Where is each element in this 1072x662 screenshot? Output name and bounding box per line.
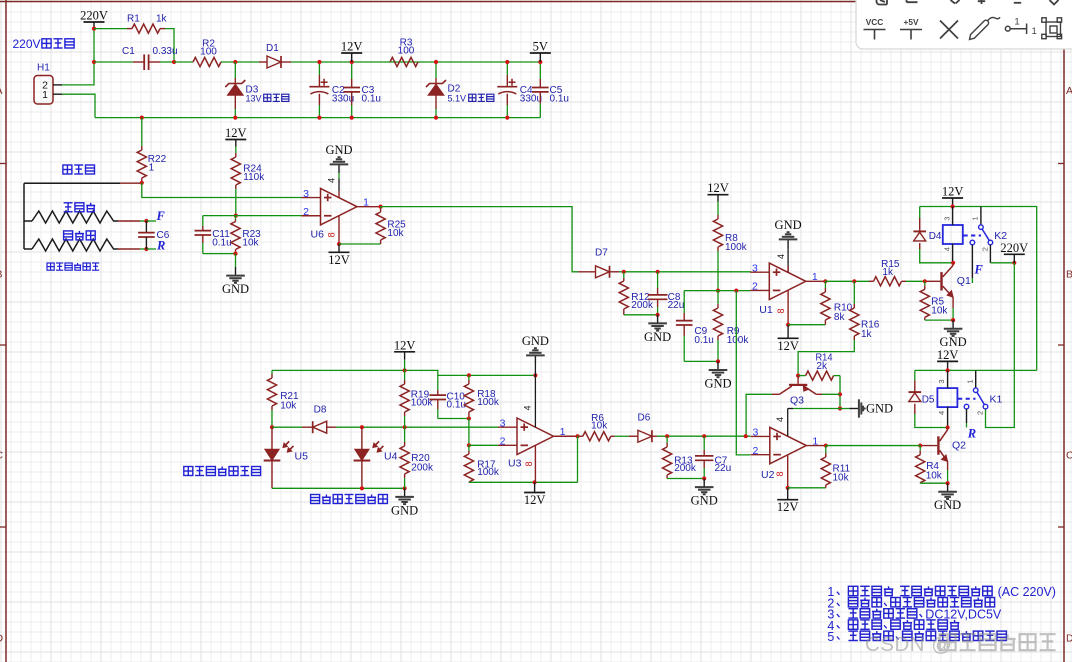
ground U6 pin4: [338, 164, 340, 173]
node Q3 base/R14: [796, 374, 800, 378]
node C3 top: [350, 60, 354, 64]
node junction 220V/R1: [92, 27, 96, 31]
resistor R23: [235, 216, 237, 220]
relay K1 switch: [975, 370, 977, 388]
svg-text:10k: 10k: [833, 472, 850, 483]
wire U1pin2 down to U2 pin2: [736, 291, 750, 455]
node U3 output: [575, 434, 579, 438]
resistor R13: [666, 436, 668, 443]
capacitor C11: [202, 216, 204, 226]
svg-text:10k: 10k: [591, 421, 608, 432]
svg-text:F: F: [156, 209, 166, 223]
ground R9: [717, 361, 719, 370]
node 12V rail: [403, 368, 407, 372]
toolbar icon no-connect X: [940, 21, 958, 39]
wire K1 top rail: [915, 369, 1037, 371]
wire H1 pin2 to 220V column: [62, 84, 95, 86]
wire R13 bottom: [667, 478, 704, 480]
toolbar icon group: [1042, 18, 1062, 39]
capacitor C10: [437, 375, 439, 390]
motor left bus black: [24, 183, 32, 249]
wire C11 bottom to R23: [203, 253, 236, 255]
wire pin8 to R25: [339, 243, 381, 245]
H1 pin 1 stub: [53, 93, 62, 95]
svg-text:100k: 100k: [725, 242, 748, 253]
resistor R1: [132, 24, 160, 33]
ground Q1: [952, 320, 954, 329]
svg-text:12V: 12V: [394, 338, 416, 352]
U6 pin4 wire to GND: [338, 173, 340, 179]
capacitor C3: [351, 62, 353, 79]
svg-text:2: 2: [981, 247, 990, 251]
resistor R22 body: [137, 150, 146, 178]
diode D1: [259, 61, 267, 63]
node D2 top: [434, 60, 438, 64]
resistor R5: [924, 281, 926, 285]
node U2 pin8: [786, 486, 790, 490]
wire C1 left: [94, 61, 133, 63]
svg-text:D: D: [1066, 633, 1072, 645]
svg-text:10k: 10k: [926, 470, 943, 481]
svg-text:GND: GND: [522, 334, 549, 348]
photodiode U5: [271, 427, 273, 449]
resistor R14 body: [806, 371, 834, 380]
svg-text:10k: 10k: [280, 400, 297, 411]
svg-text:4: 4: [523, 405, 533, 410]
resistor R25: [380, 207, 382, 208]
wire U6 out long: [381, 207, 578, 272]
node R18/C10 bottom: [467, 416, 471, 420]
node pin2/U2 branch: [734, 289, 738, 293]
svg-text:100k: 100k: [477, 467, 500, 478]
svg-text:D5: D5: [922, 395, 935, 406]
svg-text:0.1u: 0.1u: [694, 335, 713, 346]
svg-text:5V: 5V: [533, 40, 548, 54]
svg-text:U2: U2: [761, 469, 775, 481]
resistor R10: [824, 281, 826, 288]
capacitor C2 plates: [309, 86, 329, 88]
svg-text:R: R: [967, 427, 976, 441]
wire R14 right down: [839, 376, 841, 409]
node C3 bottom: [350, 116, 354, 120]
toolbar panel: [856, 0, 1072, 49]
node C10 row R18: [467, 373, 471, 377]
watermark CSDN: [865, 633, 1056, 656]
svg-text:8: 8: [775, 471, 785, 476]
node Q2 base: [918, 443, 922, 447]
node Q3 emitter wire: [744, 434, 748, 438]
svg-text:D7: D7: [595, 248, 608, 259]
flag 5V: [530, 52, 551, 54]
photo bottom rail: [272, 487, 405, 489]
svg-text:Q1: Q1: [957, 275, 971, 287]
resistor R4: [919, 446, 921, 451]
diode D4 symbol: [913, 230, 926, 232]
svg-text:2: 2: [976, 411, 985, 415]
node D3 top: [233, 60, 237, 64]
node C2 top: [317, 60, 321, 64]
svg-text:200k: 200k: [411, 462, 434, 473]
svg-text:A: A: [1066, 85, 1072, 97]
node pin4 row: [838, 406, 842, 410]
capacitor C3 plates: [343, 87, 360, 89]
flag 12V U2: [777, 499, 798, 501]
svg-text:8: 8: [327, 232, 337, 237]
svg-text:110k: 110k: [243, 172, 265, 183]
relay K1 coil box: [937, 388, 957, 407]
node U4 bottom: [360, 486, 364, 490]
resistor R17 body: [464, 454, 473, 482]
node R: [144, 247, 148, 251]
svg-text:12V: 12V: [524, 493, 546, 507]
svg-text:220V: 220V: [1000, 241, 1028, 255]
svg-text:2k: 2k: [816, 361, 828, 372]
svg-text:330u: 330u: [520, 93, 542, 104]
node C7 top: [702, 434, 706, 438]
svg-text:Q2: Q2: [952, 440, 966, 452]
svg-text:K1: K1: [990, 394, 1003, 406]
svg-text:1: 1: [812, 271, 818, 283]
sheet border left: [5, 0, 7, 662]
node 220V: [1012, 261, 1016, 265]
svg-text:VCC: VCC: [866, 17, 884, 27]
toolbar icon net label: [1005, 26, 1010, 31]
capacitor C1: [133, 61, 144, 63]
resistor R15 body: [874, 277, 902, 286]
resistor R22: [141, 118, 143, 146]
op-amp U6 triangle: [321, 188, 358, 225]
node K2 coil bottom / Q1 collector: [951, 261, 955, 265]
svg-text:2: 2: [752, 445, 758, 457]
resistor R16 body: [850, 308, 859, 336]
ground Q3/U2 pin4: [850, 408, 859, 410]
wire U1 pin2 row: [684, 290, 750, 292]
node R1/C1 junction: [172, 60, 176, 64]
node R16 top: [852, 279, 856, 283]
svg-text:10k: 10k: [931, 306, 948, 317]
svg-text:Q3: Q3: [790, 394, 804, 406]
capacitor C6 plates: [138, 232, 155, 234]
svg-text:12V: 12V: [225, 126, 247, 140]
svg-text:12V: 12V: [777, 339, 799, 353]
node C4 bottom: [505, 116, 509, 120]
wire Q3 emitter to U2 pin3: [746, 394, 772, 436]
K2 throw F lead: [971, 245, 973, 278]
ground R12/C8: [657, 315, 659, 324]
resistor R4 body: [916, 455, 925, 483]
wire C9 bottom to R9: [684, 360, 718, 362]
flag 12V U3: [524, 492, 545, 494]
svg-text:100: 100: [398, 46, 415, 57]
svg-text:0.1u: 0.1u: [550, 93, 569, 104]
svg-text:U6: U6: [311, 229, 325, 241]
wire R17 bottom row: [469, 481, 578, 483]
node U1 pin8: [786, 323, 790, 327]
svg-text:+5V: +5V: [904, 17, 919, 27]
label 公共端: [63, 165, 95, 174]
resistor R20 body: [400, 446, 409, 474]
svg-text:22u: 22u: [715, 463, 732, 474]
svg-text:A: A: [0, 85, 3, 97]
node pin2: [467, 443, 471, 447]
svg-text:B: B: [1066, 269, 1072, 281]
flag 12V K2: [942, 197, 963, 199]
node Q1 emitter gnd: [951, 318, 955, 322]
svg-text:F: F: [974, 263, 984, 277]
flag 12V U1: [778, 337, 799, 339]
resistor R18: [468, 375, 470, 380]
svg-text:1: 1: [42, 89, 48, 101]
photodiode U4: [361, 427, 363, 449]
diode D5: [914, 370, 916, 380]
op-amp U1 triangle: [769, 263, 806, 300]
node C4 top: [505, 60, 509, 64]
svg-text:8k: 8k: [834, 312, 846, 323]
svg-text:GND: GND: [644, 330, 671, 344]
node pin4 top: [533, 373, 537, 377]
wire pin8 to R10: [788, 324, 825, 326]
resistor R18 body: [464, 384, 473, 412]
svg-text:U3: U3: [508, 458, 522, 470]
svg-text:1k: 1k: [861, 329, 873, 340]
wire F stub: [146, 220, 156, 222]
node Q2 emitter gnd: [946, 481, 950, 485]
diode D5 symbol: [909, 391, 922, 393]
svg-text:0.1u: 0.1u: [362, 93, 381, 104]
svg-text:GND: GND: [704, 376, 731, 390]
wire U6 pin2 row: [203, 215, 302, 217]
svg-text:H1: H1: [37, 63, 50, 74]
svg-text:1: 1: [363, 196, 369, 208]
diode D4: [919, 207, 921, 219]
resistor R24: [235, 147, 237, 154]
connector H1: [34, 76, 53, 105]
node K1 coil top: [946, 368, 950, 372]
svg-text:C6: C6: [157, 230, 170, 241]
svg-text:8: 8: [524, 461, 534, 466]
svg-text:2: 2: [752, 281, 758, 293]
K2 throw 220V lead: [989, 245, 991, 263]
H1 pin 2 stub: [53, 84, 62, 86]
svg-text:4: 4: [327, 178, 337, 183]
node C5 top: [538, 60, 542, 64]
svg-text:1: 1: [1014, 17, 1019, 28]
svg-text:GND: GND: [934, 498, 961, 512]
resistor R21: [271, 370, 273, 374]
wire pin2 row: [469, 444, 498, 446]
wire U1 out to R15: [825, 280, 869, 282]
wire R stub: [146, 248, 156, 250]
diode D7: [578, 271, 596, 273]
resistor R19 body: [400, 384, 409, 412]
resistor R20: [404, 427, 406, 442]
resistor R8: [717, 202, 719, 215]
wire C5 bottom corner: [539, 104, 541, 118]
U6 pin8: [338, 216, 340, 244]
svg-text:1k: 1k: [882, 267, 894, 278]
resistor R23 body: [231, 222, 240, 250]
node R23 bottom: [233, 252, 237, 256]
svg-text:5.1V: 5.1V: [448, 94, 467, 104]
photodiode U4 symbol: [355, 450, 369, 461]
capacitor C8: [657, 272, 659, 288]
resistor R12 body: [619, 281, 628, 309]
ground U1 pin4: [787, 239, 789, 248]
wire bottom rail: [95, 117, 540, 119]
svg-text:1: 1: [560, 426, 566, 438]
wire R5 bottom: [925, 319, 953, 321]
wire node to U2 pin4: [793, 408, 840, 410]
ground U3 pin4: [534, 355, 536, 364]
svg-text:1: 1: [1032, 26, 1037, 37]
photodiode U5 symbol: [265, 450, 279, 461]
wire U2 out to Q2 base: [826, 445, 920, 447]
svg-text:220V: 220V: [13, 37, 41, 51]
svg-text:U5: U5: [295, 451, 309, 463]
label 进纸光电接收管: [311, 495, 388, 504]
resistor R6: [578, 435, 579, 437]
svg-text:4: 4: [937, 411, 946, 415]
label 副绕组: [64, 231, 96, 240]
svg-text:GND: GND: [775, 218, 802, 232]
node R19/R20: [403, 425, 407, 429]
resistor R14: [798, 375, 806, 377]
diode D7 body: [596, 266, 610, 278]
svg-text:12V: 12V: [942, 185, 964, 199]
svg-text:GND: GND: [391, 503, 418, 517]
node U3 pin8: [533, 480, 537, 484]
U1 pin8: [787, 290, 789, 324]
zener D2 symbol: [426, 80, 446, 87]
svg-text:22u: 22u: [668, 300, 685, 311]
wire R2 to D3 node: [221, 61, 259, 63]
wire D1 to C2: [291, 61, 540, 63]
svg-text:GND: GND: [691, 494, 718, 508]
wire to GND: [235, 254, 237, 267]
svg-text:5: 5: [827, 630, 834, 644]
transistor Q1 symbol: [940, 272, 942, 290]
U1 pin4: [787, 248, 789, 272]
svg-text:12V: 12V: [937, 348, 959, 362]
resistor R8 body: [713, 219, 722, 247]
resistor R5 body: [920, 289, 929, 317]
node U5 top: [270, 425, 274, 429]
wire D8 to pin3: [336, 426, 498, 428]
svg-text:3: 3: [937, 379, 946, 383]
sheet border right: [1063, 0, 1065, 662]
transistor Q2: [920, 445, 937, 447]
svg-text:330u: 330u: [332, 93, 354, 104]
border zone ticks: [0, 163, 6, 165]
ground photo rail: [404, 488, 406, 497]
ground R13/C7: [703, 479, 705, 488]
toolbar icon pen: [970, 20, 989, 39]
zener D3 symbol: [225, 80, 245, 87]
resistor R11 body: [821, 457, 830, 485]
transistor Q1: [925, 280, 941, 282]
wire K2 top rail: [920, 207, 1037, 371]
sheet border top: [0, 1, 1072, 3]
op-amp U2 triangle: [770, 427, 807, 464]
svg-text:C: C: [1066, 450, 1072, 462]
capacitor C9: [683, 291, 685, 313]
svg-text:100k: 100k: [477, 397, 500, 408]
node junction 220V/C1: [92, 60, 96, 64]
U2 pin4 black: [787, 409, 789, 437]
wire photo top rail: [272, 370, 535, 375]
U3 pin8: [534, 445, 536, 482]
capacitor C5 plates: [532, 87, 549, 89]
flag 12V R24: [225, 139, 246, 141]
resistor R12: [623, 272, 625, 278]
node R14/Q3 collector: [838, 392, 842, 396]
svg-text:4: 4: [776, 254, 786, 259]
svg-text:2: 2: [303, 206, 309, 218]
wire down to pin2: [468, 419, 470, 446]
wire Q3 collector to node: [822, 393, 840, 395]
node rail/R22: [140, 116, 144, 120]
wire U3 out feedback down: [577, 436, 579, 482]
svg-text:D6: D6: [638, 412, 651, 423]
capacitor C9 plates: [676, 320, 693, 322]
svg-text:10k: 10k: [387, 228, 404, 239]
resistor R13 body: [663, 447, 672, 475]
diode D8 body: [313, 421, 327, 433]
capacitor C5: [539, 62, 541, 79]
svg-text:3: 3: [752, 427, 758, 439]
node C8 bottom: [656, 313, 660, 317]
svg-text:U1: U1: [759, 304, 773, 316]
flag 220V top: [84, 21, 105, 23]
zener D2 5.1V: [435, 62, 437, 78]
resistor R25 body: [376, 212, 385, 240]
svg-text:D: D: [0, 633, 4, 645]
node C2 bottom: [317, 116, 321, 120]
svg-text:200k: 200k: [674, 463, 697, 474]
resistor R16: [853, 281, 855, 304]
node C8 top: [656, 270, 660, 274]
node R24/pin2: [234, 214, 238, 218]
flag 12V K1: [937, 360, 958, 362]
resistor R21 body: [267, 378, 276, 406]
node K1 coil bottom: [946, 425, 950, 429]
svg-text:1: 1: [971, 217, 980, 221]
svg-text:C1: C1: [122, 46, 135, 57]
ground C11/R23: [235, 267, 237, 276]
svg-text:1: 1: [966, 379, 975, 383]
node R8/pin2: [716, 289, 720, 293]
toolbar top row fragments: [877, 0, 1059, 5]
capacitor C11 plates: [195, 230, 212, 232]
U2 pin8: [787, 455, 789, 488]
svg-text:0.1u: 0.1u: [212, 237, 231, 248]
transistor Q2 symbol: [937, 436, 939, 454]
wire R16 to Q3 base: [798, 340, 854, 376]
capacitor C4 plates: [497, 86, 517, 88]
relay K2 switch: [980, 207, 982, 225]
svg-text:DC12V,DC5V: DC12V,DC5V: [925, 608, 1002, 622]
diode D8 (points left): [302, 426, 313, 428]
flag 12V U6: [329, 251, 350, 253]
svg-text:3: 3: [500, 417, 506, 429]
wire H1 pin1 down to bottom rail: [62, 94, 95, 117]
svg-text:200k: 200k: [631, 300, 654, 311]
motor aux winding 副绕组: [32, 239, 118, 251]
wire R12 bottom: [624, 314, 658, 316]
zener D3 13V: [234, 62, 236, 78]
resistor R9: [717, 291, 719, 304]
wire C10 bottom: [438, 418, 469, 420]
